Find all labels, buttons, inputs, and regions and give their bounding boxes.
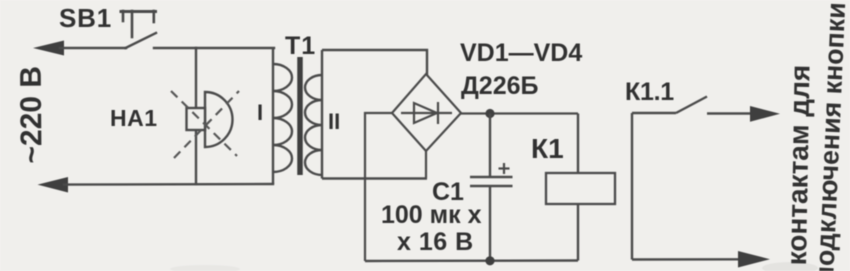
K1 coil box xyxy=(546,173,615,204)
pushbutton SB1 cap right tick xyxy=(153,11,156,22)
svg-text:Д226Б: Д226Б xyxy=(461,72,539,100)
K1.1 movable blade xyxy=(676,97,707,114)
bridge diode line xyxy=(401,112,452,114)
bridge diode cathode bar xyxy=(437,102,439,124)
svg-text:T1: T1 xyxy=(285,32,316,60)
svg-text:HA1: HA1 xyxy=(110,105,158,131)
relay coil K1 xyxy=(365,114,615,262)
terminal arrow: AC top line xyxy=(33,41,64,56)
svg-text:К1.1: К1.1 xyxy=(625,78,674,106)
svg-text:~220 В: ~220 В xyxy=(15,66,49,164)
diode bridge VD1-VD4 xyxy=(365,74,578,261)
C1 plus sign xyxy=(499,167,510,169)
K1 bottom lead xyxy=(577,204,579,261)
pushbutton SB1 cap bar xyxy=(121,10,156,13)
K1.1 common vertical wire xyxy=(631,113,633,260)
wire: AC top to SB1 xyxy=(60,47,126,49)
T1 primary winding I bumps xyxy=(273,64,292,172)
wire: bridge plus lead to relay xyxy=(461,112,578,114)
lamp HA1 dome xyxy=(205,92,232,147)
pushbutton SB1 cap left tick xyxy=(122,11,125,21)
terminal arrow: bottom output xyxy=(738,251,770,268)
wire: bridge AC bottom lead xyxy=(425,151,427,179)
pushbutton SB1 blade xyxy=(126,33,157,48)
C1 top lead xyxy=(489,114,491,178)
lamp HA1 rays dashed X xyxy=(171,91,239,158)
lamp HA1 square xyxy=(187,108,206,130)
C1 bottom plate xyxy=(470,185,513,187)
svg-text:х 16 В: х 16 В xyxy=(397,228,474,256)
terminal arrow: AC bottom line xyxy=(38,177,69,193)
svg-text:К1: К1 xyxy=(531,133,564,164)
bridge diode triangle xyxy=(414,103,437,123)
K1 top lead xyxy=(577,114,579,174)
wire: bridge minus lead to left rail xyxy=(365,113,392,261)
wire: SB1 to T1 primary top xyxy=(154,47,274,49)
bridge diamond xyxy=(392,74,461,151)
T1 secondary conductor xyxy=(321,50,323,179)
C1 top plate xyxy=(470,176,513,178)
T1 primary conductor xyxy=(272,48,274,184)
wire: secondary bottom to bridge xyxy=(322,177,427,179)
lamp HA1 xyxy=(171,91,239,158)
scan smudge bottom right xyxy=(762,262,818,271)
relay contact K1.1 xyxy=(632,97,780,268)
wire: negative bottom rail xyxy=(365,259,578,262)
terminal arrow: top output xyxy=(750,106,780,122)
svg-text:SB1: SB1 xyxy=(59,3,112,33)
wire: AC bottom to T1 xyxy=(64,183,273,186)
transformer T1 xyxy=(273,48,322,184)
scan smudge bottom left xyxy=(170,265,240,271)
junction dot: bottom rail / C1 xyxy=(485,256,494,265)
K1.1 fixed contact stub xyxy=(632,112,676,114)
wire: secondary top to bridge xyxy=(322,50,427,75)
svg-text:II: II xyxy=(328,109,340,134)
wire: contact output top xyxy=(707,112,752,114)
wire: HA1 branch vertical xyxy=(195,48,197,184)
C1 bottom lead xyxy=(489,186,491,261)
wire: contact output bottom xyxy=(632,258,740,261)
pushbutton SB1 stem xyxy=(131,11,134,37)
svg-text:I: I xyxy=(257,100,263,125)
capacitor C1 xyxy=(470,114,513,262)
svg-text:100 мк х: 100 мк х xyxy=(381,201,482,229)
junction dot: plus node xyxy=(485,109,494,118)
T1 secondary winding II bumps xyxy=(305,75,322,175)
T1 core xyxy=(297,57,303,175)
svg-text:VD1—VD4: VD1—VD4 xyxy=(460,39,582,67)
